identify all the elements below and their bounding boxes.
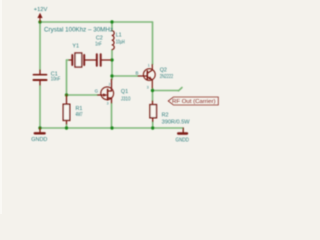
svg-text:Y1: Y1 [72, 44, 79, 50]
svg-text:RF Out (Carrier): RF Out (Carrier) [172, 99, 216, 105]
svg-text:G: G [95, 89, 99, 94]
svg-text:1: 1 [148, 63, 150, 67]
svg-text:390R/0.5W: 390R/0.5W [162, 119, 191, 125]
svg-text:2N2222: 2N2222 [160, 74, 174, 80]
svg-text:+12V: +12V [34, 7, 48, 13]
svg-text:J310: J310 [121, 96, 130, 102]
svg-text:1nF: 1nF [95, 41, 102, 47]
svg-text:B: B [136, 71, 139, 76]
svg-text:10µH: 10µH [116, 40, 125, 46]
svg-text:3: 3 [107, 102, 109, 106]
svg-text:3: 3 [147, 86, 149, 90]
svg-text:R2: R2 [162, 113, 169, 119]
svg-text:GNDD: GNDD [176, 138, 190, 144]
svg-text:GNDD: GNDD [31, 137, 47, 143]
svg-text:4M7: 4M7 [76, 112, 83, 118]
svg-text:Q2: Q2 [160, 67, 167, 73]
svg-text:10nF: 10nF [51, 76, 61, 82]
svg-text:2: 2 [109, 82, 111, 86]
svg-text:Q1: Q1 [121, 89, 128, 95]
svg-text:Crystal 100Khz – 30MHz: Crystal 100Khz – 30MHz [44, 27, 113, 34]
svg-text:L1: L1 [116, 33, 122, 39]
